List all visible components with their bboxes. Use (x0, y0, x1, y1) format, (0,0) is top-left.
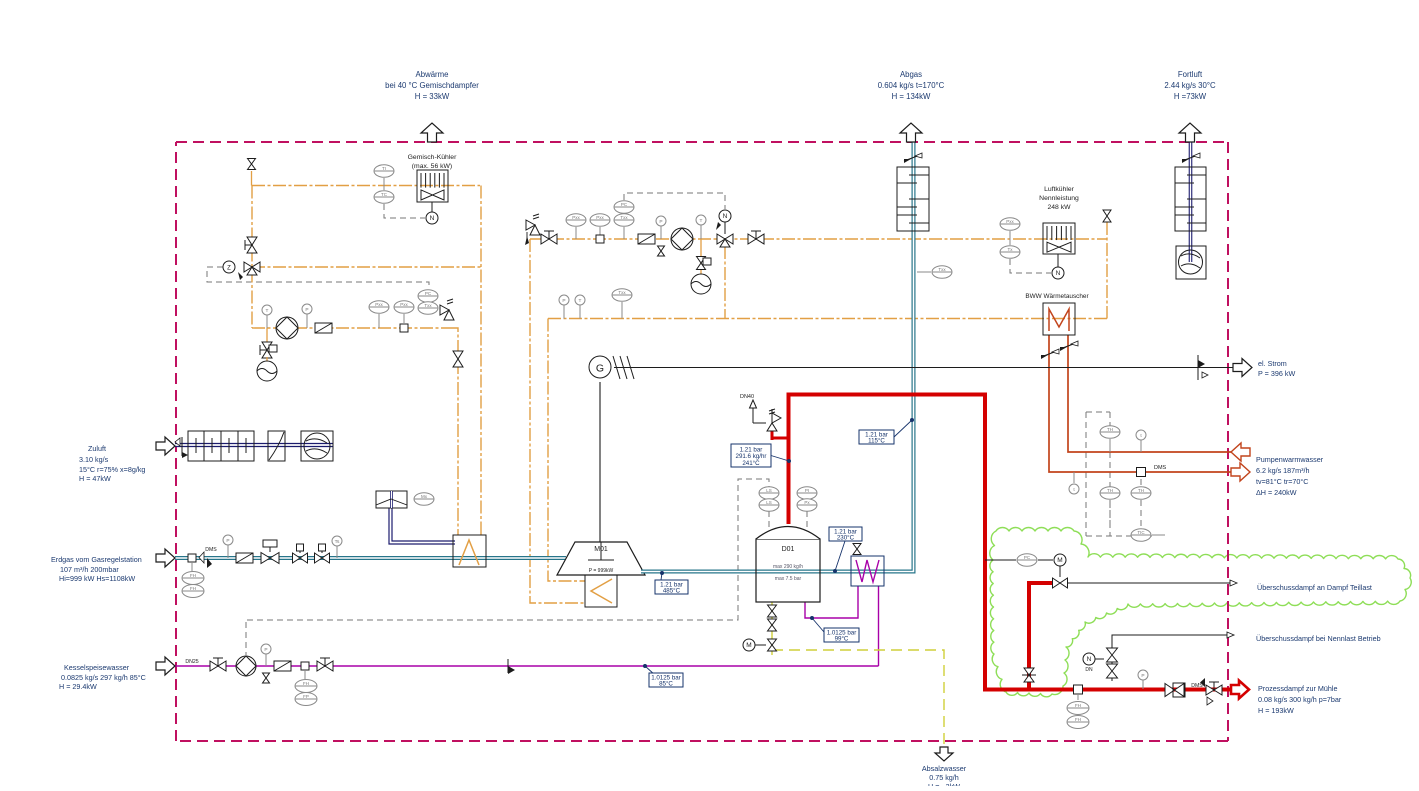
data box exhaust after M01 (655, 571, 688, 594)
valve Teillast branch (1022, 668, 1036, 682)
label Abwaerme (385, 70, 479, 101)
damper exhaust stack (904, 153, 922, 163)
instrument TH lower left (1100, 487, 1120, 500)
label BWW Waermetauscher (1025, 293, 1089, 300)
label Ueberschussdampf Teillast (1257, 583, 1372, 592)
svg-text:230°C: 230°C (837, 534, 855, 541)
three-way mixing valve with Z positioner (223, 261, 260, 280)
svg-text:H = ~3kW: H = ~3kW (928, 782, 960, 786)
instrument T mixture circuit (262, 305, 272, 328)
label Gemisch-Kuehler (408, 154, 457, 170)
pipe main cooling return O5 (548, 318, 1107, 320)
svg-text:Txx: Txx (620, 215, 628, 220)
arrow out Prozessdampf (1231, 681, 1249, 699)
svg-text:Txx: Txx (424, 303, 432, 308)
svg-text:LS: LS (766, 488, 772, 493)
svg-text:3.10 kg/s: 3.10 kg/s (79, 455, 109, 464)
pipe expansion branch x701 (700, 239, 702, 277)
pipe engine cooling return O2 (252, 266, 481, 268)
arrow out Abwaerme (421, 123, 443, 142)
svg-text:Pxx: Pxx (400, 302, 408, 307)
arrow in Zuluft (156, 437, 175, 455)
plant boundary dashed magenta border (176, 142, 1228, 741)
svg-text:P = 396 kW: P = 396 kW (1258, 369, 1295, 378)
switch symbols hot water lines (1041, 341, 1078, 359)
svg-text:FH: FH (190, 586, 196, 591)
label Prozessdampf (1258, 684, 1342, 715)
steam drum D01 (756, 527, 820, 603)
svg-text:DN40: DN40 (740, 394, 754, 400)
wire steam excess Nennlast line (1112, 632, 1234, 681)
svg-text:tv=81°C tr=70°C: tv=81°C tr=70°C (1256, 477, 1309, 486)
svg-text:15°C r=75% x=8g/kg: 15°C r=75% x=8g/kg (79, 465, 145, 474)
svg-text:DMS: DMS (1154, 465, 1167, 471)
air filter bank (188, 431, 254, 461)
data box feedwater cold (643, 664, 683, 687)
svg-text:Pumpenwarmwasser: Pumpenwarmwasser (1256, 455, 1324, 464)
pipe main steam thick red (789, 395, 1234, 690)
arrow out Absalzwasser (935, 747, 953, 761)
label Pumpenwarmwasser (1256, 455, 1324, 497)
svg-text:Pxx: Pxx (1006, 219, 1014, 224)
level instruments D01 (759, 487, 779, 512)
vent air silencer stack (1175, 167, 1206, 231)
label Ueberschussdampf Nennlast (1256, 634, 1381, 643)
svg-text:Hi=999 kW Hs=1108kW: Hi=999 kW Hs=1108kW (59, 574, 135, 583)
duct combustion air Zuluft (175, 443, 333, 447)
svg-text:H = 193kW: H = 193kW (1258, 706, 1294, 715)
pipe natural gas teal (175, 556, 566, 560)
svg-text:Gemisch-Kühler: Gemisch-Kühler (408, 154, 457, 161)
svg-text:99°C: 99°C (835, 635, 849, 642)
svg-text:P: P (1141, 673, 1144, 679)
feedwater flow DMS (295, 662, 317, 706)
instrument T O5 (575, 295, 585, 319)
solenoid valve gas 2 (315, 544, 330, 563)
svg-text:M: M (1057, 557, 1062, 564)
svg-text:N: N (723, 213, 728, 220)
label el Strom (1258, 359, 1295, 378)
pipe exhaust M01 to D01 to stack teal (641, 128, 914, 572)
svg-text:DMS: DMS (1191, 683, 1203, 689)
svg-text:N: N (1056, 270, 1061, 277)
svg-text:0.0825 kg/s 297 kg/h 85°C: 0.0825 kg/s 297 kg/h 85°C (61, 673, 146, 682)
svg-text:Zuluft: Zuluft (88, 444, 106, 453)
arrow in Pumpenwarmwasser return (1231, 443, 1250, 461)
arrow out Pumpenwarmwasser supply (1231, 463, 1250, 481)
vent air fan (1176, 246, 1206, 279)
svg-text:max 290 kg/h: max 290 kg/h (773, 564, 803, 570)
svg-text:T: T (700, 218, 703, 224)
signal line feedwater pump to level control (246, 479, 769, 655)
svg-text:Pxx: Pxx (375, 302, 383, 307)
pipe main cooling supply O4 (530, 238, 1107, 240)
safety valve O4 (525, 214, 540, 245)
svg-text:H =73kW: H =73kW (1174, 92, 1207, 101)
instrument stack PC T mixture (418, 290, 438, 315)
svg-text:107 m³/h 200mbar: 107 m³/h 200mbar (60, 565, 119, 574)
valve V1 top (245, 237, 257, 253)
instruments TI TC Gemisch cooler (374, 165, 394, 204)
svg-text:485°C: 485°C (663, 587, 681, 594)
instrument Ts gas (332, 536, 342, 558)
PC and motor Teillast valve (1017, 554, 1066, 567)
motor N reducing station (1083, 653, 1104, 673)
vent valve economizer (853, 544, 861, 555)
svg-text:0.75 kg/h: 0.75 kg/h (929, 773, 959, 782)
valve on drop V0 (453, 351, 463, 367)
steam control valve (1165, 683, 1185, 697)
instrument P mixture circuit (302, 304, 312, 328)
svg-text:FH: FH (1075, 717, 1081, 722)
label DMS steam valve (1191, 678, 1205, 689)
heat exchanger BWW (1043, 303, 1075, 335)
pipe exhaust through M01 redraw (641, 570, 660, 574)
instrument P with drain O4 (656, 216, 666, 256)
arrow out el Strom (1233, 359, 1252, 377)
gas engine M01 (557, 542, 645, 575)
pipe hot water supply x1068 (1068, 335, 1240, 452)
svg-text:D01: D01 (782, 546, 795, 553)
svg-text:DMS: DMS (205, 547, 217, 553)
svg-text:T: T (266, 308, 269, 314)
svg-text:TH: TH (1107, 488, 1113, 493)
solenoid valve gas 1 (293, 544, 308, 563)
svg-text:BWW Wärmetauscher: BWW Wärmetauscher (1025, 293, 1089, 300)
pipe riser V1 x252 (251, 186, 253, 329)
feedwater valve 2 (317, 658, 333, 671)
signal stems D01 instruments (769, 511, 807, 528)
arrow out Abgas (900, 123, 922, 142)
instrument with DMS tap mixture (394, 301, 414, 332)
svg-text:PC: PC (425, 291, 432, 296)
svg-text:Pxx: Pxx (572, 215, 580, 220)
blowdown valve motorized (743, 639, 777, 651)
svg-text:T: T (579, 298, 582, 304)
svg-text:0.08 kg/s 300 kg/h p=7bar: 0.08 kg/s 300 kg/h p=7bar (1258, 695, 1342, 704)
flow mark feedwater (508, 659, 515, 674)
svg-text:Überschussdampf bei Nennlast B: Überschussdampf bei Nennlast Betrieb (1256, 634, 1381, 643)
svg-text:Überschussdampf an Dampf Teill: Überschussdampf an Dampf Teillast (1257, 583, 1372, 592)
pipe hot water return x1049 (1049, 335, 1240, 472)
instrument TH hot water supply (1100, 426, 1120, 452)
data box steam line (731, 444, 791, 467)
sight glass O4 (638, 234, 655, 244)
generator G (589, 356, 634, 379)
heat exchanger mixture preheater (453, 535, 486, 567)
svg-text:Absalzwasser: Absalzwasser (922, 764, 967, 773)
svg-text:241°C: 241°C (742, 460, 760, 467)
svg-text:TH: TH (1138, 488, 1144, 493)
svg-text:G: G (596, 363, 604, 375)
svg-text:PC: PC (1024, 555, 1031, 560)
instrument P gas (223, 535, 233, 558)
svg-text:Z: Z (227, 266, 231, 272)
svg-text:H = 134kW: H = 134kW (892, 92, 931, 101)
svg-text:N: N (430, 215, 435, 222)
svg-text:bei 40 °C Gemischdampfer: bei 40 °C Gemischdampfer (385, 81, 479, 90)
svg-text:85°C: 85°C (659, 680, 673, 687)
duct mixture to heat exchanger (391, 508, 456, 543)
sight glass mixture circuit (315, 323, 332, 333)
instrument TH lower right (1131, 487, 1151, 500)
svg-text:H = 33kW: H = 33kW (415, 92, 450, 101)
svg-text:ΔH = 240kW: ΔH = 240kW (1256, 488, 1297, 497)
instrument t hot water return (1069, 472, 1079, 494)
shutoff valve O4 left (541, 231, 557, 244)
svg-text:(max. 56 kW): (max. 56 kW) (412, 163, 452, 170)
instrument P O4 first (566, 214, 586, 239)
instrument P O4 with DMS (590, 214, 610, 243)
motor valve Teillast (1053, 578, 1068, 588)
svg-text:N: N (1087, 656, 1092, 663)
data box exhaust stack (859, 418, 914, 444)
three-way valve with motor N O4 (716, 210, 733, 247)
pipe drop x530 (530, 239, 585, 603)
label Abgas (878, 70, 945, 101)
svg-text:Fortluft: Fortluft (1178, 70, 1203, 79)
arrow out Fortluft (1179, 123, 1201, 142)
label Kesselspeisewasser (59, 663, 146, 691)
svg-text:Txx: Txx (618, 290, 626, 295)
svg-text:2.44 kg/s 30°C: 2.44 kg/s 30°C (1164, 81, 1216, 90)
signal line Gemisch cooler fan (384, 204, 425, 218)
svg-text:Mx: Mx (421, 494, 428, 499)
pipe drop V2 x481 (480, 186, 482, 536)
pipe Luftkuehler riser V6 (1106, 222, 1108, 319)
damper vent stack (1182, 153, 1200, 163)
data box feedwater hot (810, 616, 859, 642)
gas filter (236, 553, 253, 563)
label Absalzwasser (922, 764, 967, 791)
pipe drop x548 (548, 319, 585, 582)
pipe boiler feedwater magenta (175, 586, 879, 666)
signal frame right instrument cluster (1086, 412, 1156, 536)
svg-text:FH: FH (190, 573, 196, 578)
instrument Txx O5 (612, 289, 632, 319)
gas pressure regulator (261, 540, 279, 564)
svg-text:FH: FH (303, 681, 309, 686)
label DN25 feedwater (185, 659, 198, 665)
svg-text:el. Strom: el. Strom (1258, 359, 1287, 368)
arrow in Kesselspeisewasser (156, 657, 175, 675)
svg-text:max 7.5 bar: max 7.5 bar (775, 576, 802, 582)
svg-text:P: P (659, 219, 662, 225)
air damper (268, 431, 285, 461)
svg-text:Txx: Txx (938, 267, 946, 272)
air cooler Notkuehlung (1043, 223, 1075, 254)
svg-text:6.2 kg/s 187m³/h: 6.2 kg/s 187m³/h (1256, 466, 1310, 475)
expansion vessel main circuit (691, 257, 711, 295)
svg-text:Luftkühler: Luftkühler (1044, 186, 1075, 193)
gas meter DMS with FH instruments (182, 554, 204, 598)
svg-text:Erdgas vom Gasregelstation: Erdgas vom Gasregelstation (51, 555, 142, 564)
svg-text:P: P (226, 538, 229, 544)
blowdown valve 2 (768, 619, 777, 631)
blowdown valve 1 (768, 605, 777, 617)
pipe branch three-way valve V5 (724, 246, 726, 319)
svg-text:DN25: DN25 (185, 659, 198, 665)
pump mixture cooling (276, 317, 298, 339)
feedwater inlet valve (210, 658, 226, 671)
svg-text:Px: Px (804, 500, 810, 505)
pressure holding vessel mixture circuit (257, 328, 277, 381)
feedwater pump (236, 656, 256, 676)
switch el Strom (1198, 355, 1208, 380)
svg-text:FP: FP (303, 694, 309, 699)
svg-text:Pxx: Pxx (596, 215, 604, 220)
pipe steam branch to Teillast (1029, 583, 1054, 690)
relief valve mixture circuit (440, 299, 454, 320)
svg-text:Tx: Tx (1008, 247, 1014, 252)
svg-text:Ts: Ts (335, 539, 340, 545)
signal stems right cluster (1110, 479, 1141, 530)
check valve gas line (199, 547, 217, 568)
vent valve V6 top (1103, 210, 1111, 222)
svg-text:LS: LS (766, 500, 772, 505)
svg-text:TI: TI (382, 166, 386, 171)
vent valve above O1 corner (248, 159, 256, 186)
svg-text:P: P (305, 307, 308, 313)
supply air fan (301, 431, 333, 461)
gas-air mixer (376, 491, 434, 508)
green cloud future option boundary (990, 528, 1411, 697)
motor N Luftkuehler fan (1052, 254, 1064, 279)
svg-text:P: P (264, 647, 267, 653)
svg-text:248 kW: 248 kW (1047, 204, 1071, 211)
svg-text:Kesselspeisewasser: Kesselspeisewasser (64, 663, 130, 672)
duct Fortluft stack (1189, 128, 1193, 262)
pipe economizer to D01 magenta (805, 586, 858, 618)
flow marks Zuluft (175, 437, 188, 458)
svg-text:Abwärme: Abwärme (416, 70, 449, 79)
air cooler Gemisch-Kuehler (417, 170, 448, 202)
feedwater strainer (274, 661, 291, 671)
svg-text:115°C: 115°C (868, 437, 885, 444)
instrument T exhaust (917, 266, 952, 279)
instrument T O4 (696, 215, 706, 239)
instrument P O5 (559, 295, 569, 319)
wire PC to valve M (985, 560, 1060, 577)
svg-text:Prozessdampf zur Mühle: Prozessdampf zur Mühle (1258, 684, 1338, 693)
exhaust silencer stack (897, 167, 929, 231)
svg-text:0.604 kg/s t=170°C: 0.604 kg/s t=170°C (878, 81, 945, 90)
label Fortluft (1164, 70, 1216, 101)
wire generator to grid (614, 367, 1252, 369)
instrument P feedwater (261, 644, 271, 683)
svg-text:PI: PI (805, 488, 809, 493)
signal line middle cooling pump (624, 193, 725, 209)
pipe drop V0 x458 (449, 328, 458, 535)
instruments Luftkuehler (1000, 218, 1020, 259)
svg-text:H = 29.4kW: H = 29.4kW (59, 682, 97, 691)
instrument stack T PC O4 (614, 201, 634, 239)
svg-text:PC: PC (621, 202, 628, 207)
DMS orifice hot water line (1137, 465, 1167, 477)
svg-text:Abgas: Abgas (900, 70, 922, 79)
wire steam excess Teillast line (1068, 580, 1237, 586)
pressure instruments D01 (797, 487, 817, 512)
instrument TIC bottom (1131, 529, 1165, 542)
instrument P steam (1138, 670, 1148, 689)
pipe mixture circuit O3 (252, 327, 449, 329)
label Erdgas (51, 555, 142, 583)
steam flow orifice DMS (1067, 685, 1089, 729)
shutoff valve O4 right (748, 231, 764, 244)
svg-text:M: M (746, 642, 751, 649)
svg-text:TH: TH (1107, 427, 1113, 432)
svg-text:DN: DN (1085, 667, 1093, 673)
label Zuluft (79, 444, 145, 483)
data box exhaust before eco (829, 527, 862, 573)
pipe engine cooling supply O1 (252, 185, 480, 187)
pump main cooling water (671, 228, 693, 250)
label Luftkuehler (1039, 186, 1079, 211)
svg-text:P: P (562, 298, 565, 304)
signal line Luftkuehler fan (1010, 259, 1051, 273)
svg-text:H = 47kW: H = 47kW (79, 474, 111, 483)
pressure reducing valves (1107, 648, 1118, 678)
instrument Pxx mixture (369, 301, 389, 328)
motor N Gemisch cooler fan (426, 202, 438, 224)
safety valve D01 steam (740, 394, 781, 431)
svg-text:P = 999kW: P = 999kW (589, 568, 614, 574)
wire generator shaft (599, 382, 601, 542)
heat exchanger engine cooler HX2 (585, 575, 617, 607)
economizer heat exchanger (851, 556, 884, 586)
arrow in Erdgas (156, 549, 175, 567)
svg-text:Nennleistung: Nennleistung (1039, 195, 1079, 202)
pipe blowdown yellow (772, 602, 944, 746)
signal line Z-controller (207, 267, 429, 288)
svg-text:TC: TC (381, 192, 388, 197)
pipe safety valve stub red (772, 429, 789, 440)
instrument t hot water supply (1136, 430, 1146, 452)
svg-text:TIC: TIC (1137, 530, 1145, 535)
steam outlet valve (1206, 682, 1222, 705)
svg-text:FH: FH (1075, 703, 1081, 708)
